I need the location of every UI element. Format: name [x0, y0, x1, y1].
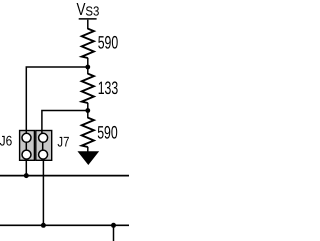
svg-text:J7: J7	[57, 133, 69, 149]
wire: J7 pin1 to pin2	[42, 138, 44, 155]
bus line B	[0, 224, 129, 226]
svg-text:V: V	[77, 0, 86, 19]
svg-text:S3: S3	[85, 4, 99, 19]
junction dot node2	[85, 108, 90, 113]
jumper J6 body	[20, 131, 35, 161]
wire: R590 to arrow	[87, 147, 89, 153]
svg-text:133: 133	[98, 78, 119, 98]
junction dot J6 to bus A	[24, 173, 29, 178]
jumper J7 pin 2	[39, 150, 48, 159]
resistor 590 (bottom)	[82, 118, 94, 147]
jumper J7 pin 1	[39, 133, 48, 142]
jumper J6 pin 1	[22, 133, 31, 142]
svg-text:J6: J6	[0, 133, 12, 149]
power down-arrow	[79, 152, 98, 164]
wire: node1 horizontal to J6	[26, 67, 88, 176]
jumper J7 body	[36, 131, 52, 161]
junction dot J7 to bus B	[41, 223, 46, 228]
wire: VS3 bar to R top	[87, 20, 89, 30]
wire: bus B stub down	[113, 225, 115, 241]
wire: node2 horizontal to J7	[42, 111, 88, 138]
power rail bar VS3	[79, 18, 97, 20]
resistor 133	[82, 74, 94, 103]
bus line A	[0, 175, 129, 177]
wire: J7 pin2 down to bus B	[42, 155, 44, 226]
junction dot node1	[85, 65, 90, 70]
resistor 590 (top)	[82, 29, 94, 58]
svg-text:590: 590	[98, 33, 119, 53]
jumper J6 pin 2	[22, 150, 31, 159]
junction dot stub on bus B	[111, 223, 116, 228]
svg-text:590: 590	[97, 122, 118, 142]
wire: R590 to R133	[87, 58, 89, 74]
wire: R133 to R590 bottom	[87, 103, 89, 118]
